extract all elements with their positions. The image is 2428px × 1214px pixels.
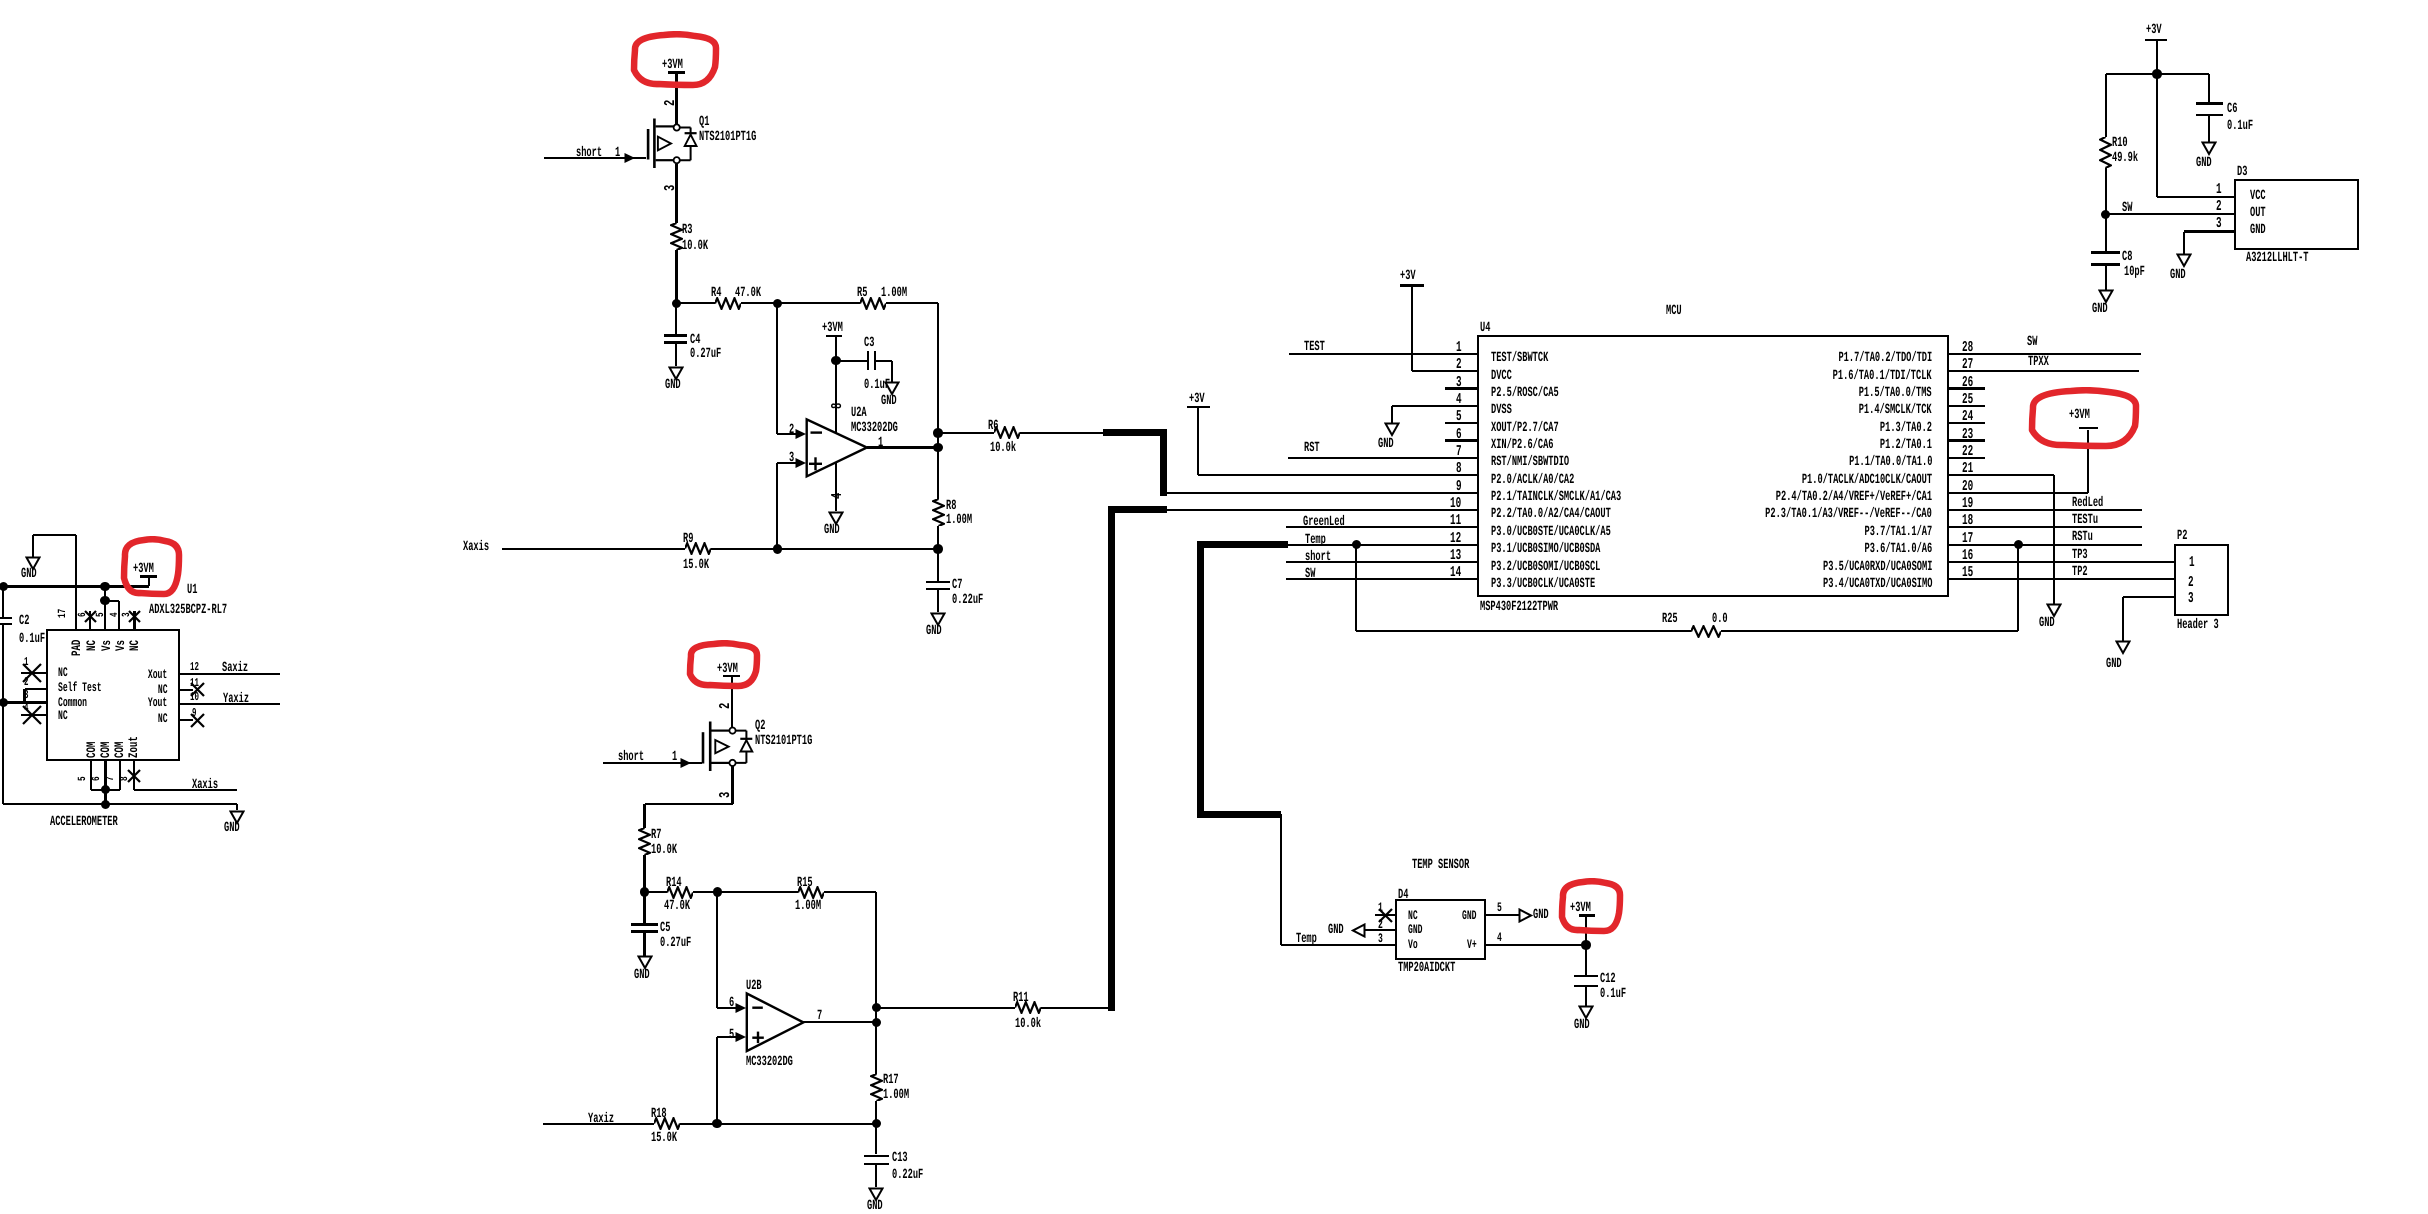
wire short to Q2 gate [603,762,702,764]
power +3VM (pin 20) [2069,408,2090,422]
pin 12 Xout / Saxiz [179,673,281,675]
wire +3VM to op-amp pin 8 [835,361,837,433]
wire Temp / pin 12 [1288,544,1479,546]
resistor R5 [778,302,860,304]
pin 2 GND (D4) [1365,929,1396,931]
power +3VM (Q2 drain) [717,662,738,676]
ground (C4) [668,366,684,381]
wire D3 GND pin to ground [2184,230,2236,232]
wire op-amp pin 4 to ground [835,462,837,511]
annotation red circle (D4 +3VM) [1558,878,1624,935]
wire Temp to D4 Vo [1281,944,1396,946]
wire short to Q1 gate [544,157,647,159]
node output/R6 [933,428,943,438]
power +3V (D3) [2146,23,2162,37]
node +3V/R10/C6 [2152,69,2162,79]
resistor R25 [1356,630,1691,632]
pin 4 NC (U1) [21,714,47,716]
ground (D3 pin 3) [2176,253,2192,268]
capacitor C8 [2105,214,2107,251]
resistor R15 [718,891,799,893]
ground (C8) [2098,289,2114,304]
wire RSTu down to R25 [2017,545,2019,632]
resistor R7 [638,828,651,855]
wire short / pin 13 [1286,561,1478,563]
connector P2 header [2174,544,2229,616]
pin 5 GND (D4) [1485,914,1520,916]
thick wire R11 to MCU pin 10 [1108,506,1115,1011]
node R14/R15/pin6 [713,887,723,897]
ground (C5) [637,955,653,970]
pin 11 NC (U1) [179,689,193,691]
wire pin 2 [1412,370,1478,372]
node R7/R14/C5 [640,887,650,897]
capacitor C5 [643,892,645,923]
wire D4 V+ to +3VM [1485,944,1586,946]
wire RSTu / pin 17 [1948,544,2142,546]
pin 3 NC top (U1) [133,611,135,630]
node rail/Vs [100,582,110,592]
ground (U1 PAD) [33,534,76,536]
power +3VM (Q1 drain) [662,58,683,72]
resistor R3 [670,223,683,250]
ground (D4 pin 2) [1351,923,1366,938]
resistor R17 [875,1022,877,1074]
wire pin 20 to +3VM [1948,492,2088,494]
capacitor C3 [836,360,867,362]
wire Vs bracket [104,587,106,601]
thick wire Temp net [1197,541,1288,548]
power +3VM (D4) [1570,901,1591,915]
wire pin 21 to ground [1948,474,2054,476]
pin 1 NC (U1) [21,672,47,674]
power +3VM (U2A pin 8) [822,321,843,335]
node rail/C2 [0,582,8,592]
op-amp U2B [740,986,812,1058]
ground (C6) [2201,141,2217,156]
node pin8/C3 [831,356,841,366]
wire pin 25 stub [1948,405,1985,407]
wire pin 4 DVSS to ground [1392,405,1478,407]
resistor R8 [937,448,939,500]
wire Temp net down to sensor [1280,814,1282,945]
node Yaxiz/pin5 [712,1119,722,1129]
wire Q1 source to R3 [675,164,677,224]
wire Temp down to R25 [1355,545,1357,632]
wire Xaxis stub [134,789,237,791]
wire COM to ground [3,803,237,805]
wire +3V to D3 VCC [2156,74,2158,197]
wire P2 pin 3 to ground [2123,596,2175,598]
node output/R11 [872,1003,882,1013]
wire PAD pin 17 [75,535,77,630]
wire +3V rail [2106,73,2210,75]
annotation red circle (pin 20 +3VM) [2028,387,2140,450]
wire U2A output [867,446,938,448]
wire TP2 / pin 15 [1948,578,2175,580]
ground (D4 pin 5) [1518,908,1533,923]
wire RST / pin 7 [1288,457,1479,459]
power +3V (pin 8) [1189,392,1205,406]
pin numbers U1 left [24,656,28,668]
pin 9 NC (U1) [179,719,193,721]
ground (pin 21) [2046,603,2062,618]
ground (C12) [1578,1005,1594,1020]
wire pin 6 stub [1445,439,1479,441]
wire RedLed / pin 19 [1948,509,2142,511]
label accelerometer [50,815,118,829]
resistor R9 [685,542,711,555]
wire SW / pin 28 [1948,353,2141,355]
ground (C13) [868,1187,884,1202]
wire SW to D3 OUT [2106,213,2236,215]
wire SelfTest tie [25,688,47,690]
wire R3 to node [675,250,677,303]
pin numbers U1 bottom [78,776,89,781]
wire R15 down to output node [875,892,877,1022]
ground (U2A pin4) [828,511,844,526]
U4 pin names [1491,351,1548,365]
transistor Q1 [640,108,760,170]
resistor R4 [677,302,715,304]
resistor R6 [938,432,994,434]
MCU U4 box [1477,335,1949,597]
wire pin 3 stub [1445,387,1479,389]
IC U1 accelerometer box [46,629,180,762]
wire Q2 source to R7 [731,766,733,804]
thick wire R6 to MCU pin 9 [1103,429,1164,436]
power +3V (DVCC) [1400,269,1416,283]
U1 bottom COM pins [90,760,92,789]
wire R5 down to output node [937,303,939,447]
wire Xaxis [502,548,685,550]
wire Common pin 3 [3,701,46,703]
wire TPXX / pin 27 [1948,370,2139,372]
pin 8 Zout (U1) [133,760,135,789]
wire op-amp pin 3 from Xaxis line [776,463,778,549]
wire pin 5 stub [1445,422,1479,424]
wire op-amp pin 5 from Yaxiz line [716,1037,718,1124]
capacitor C13 [875,1124,877,1155]
wire R7 to node [643,855,645,892]
node R3/R4/C4 [672,299,682,309]
annotation red circle (U1 +3VM) [120,536,183,598]
node RSTu/R25 [2014,540,2024,550]
op-amp U2A [800,412,875,484]
node R4/R5/pin2 [773,299,783,309]
resistor R18 [654,1117,680,1130]
label temp sensor [1412,858,1469,872]
wire GreenLed / pin 11 [1286,526,1478,528]
wire TESTu / pin 18 [1948,526,2142,528]
resistor R11 [876,1007,1015,1009]
wire SW / pin 14 [1286,578,1478,580]
ground (DVSS) [1384,422,1400,437]
wire to MCU pin 9 [1165,492,1479,494]
node SW/R10/C8 [2101,210,2111,220]
node Xaxis/pin3 [773,544,783,554]
pin numbers U1 top [58,609,69,618]
ground (P2 pin 3) [2115,640,2131,655]
node Temp/R25 [1352,540,1362,550]
capacitor C2 [2,587,4,617]
capacitor C4 [675,303,677,334]
wire pin 26 stub [1948,387,1985,389]
capacitor C7 [937,549,939,581]
wire TP3 / pin 16 [1948,561,2175,563]
wire Yaxiz [543,1123,654,1125]
annotation red circle (Q2 +3VM) [686,640,761,690]
IC D4 temp sensor box [1395,899,1486,960]
wire to MCU pin 10 [1165,509,1479,511]
wire U2B output [803,1021,876,1023]
wire node2 down to op-amp pin 2 [776,303,778,434]
wire pin 23 stub [1948,439,1985,441]
node Xaxis/R8/C7 [933,544,943,554]
ground (C3) [884,381,900,396]
power +3VM (U1 Vs) [133,562,154,576]
IC D3 hall sensor box [2234,179,2359,250]
U1 pin names [58,666,68,679]
node Yaxiz/R17/C13 [872,1119,882,1129]
wire +3VM rail [3,585,149,587]
wire pin 24 stub [1948,422,1985,424]
resistor R10 [2105,74,2107,137]
node C2/Common [0,698,8,708]
pin 6 NC top (U1) [89,611,91,630]
U4 pin numbers [1456,340,1462,355]
pin 1 NC (D4) [1375,914,1397,916]
wire node to op-amp pin 6 [716,892,718,1008]
wire pin 22 stub [1948,457,1985,459]
capacitor C6 [2208,74,2210,102]
wire TEST / pin 1 [1289,353,1479,355]
ground (C7) [930,612,946,627]
capacitor C12 [1585,945,1587,975]
wire pin 8 [1198,474,1478,476]
resistor R14 [645,891,668,893]
node V+/C12 [1581,940,1591,950]
transistor Q2 [695,711,810,773]
wire left rail down [2,703,4,805]
pin numbers D3 [2216,182,2222,197]
pin 10 Yout / Yaxiz [179,703,281,705]
annotation red circle (Q1 +3VM) [630,31,720,89]
ground (U1 COM) [229,810,245,825]
